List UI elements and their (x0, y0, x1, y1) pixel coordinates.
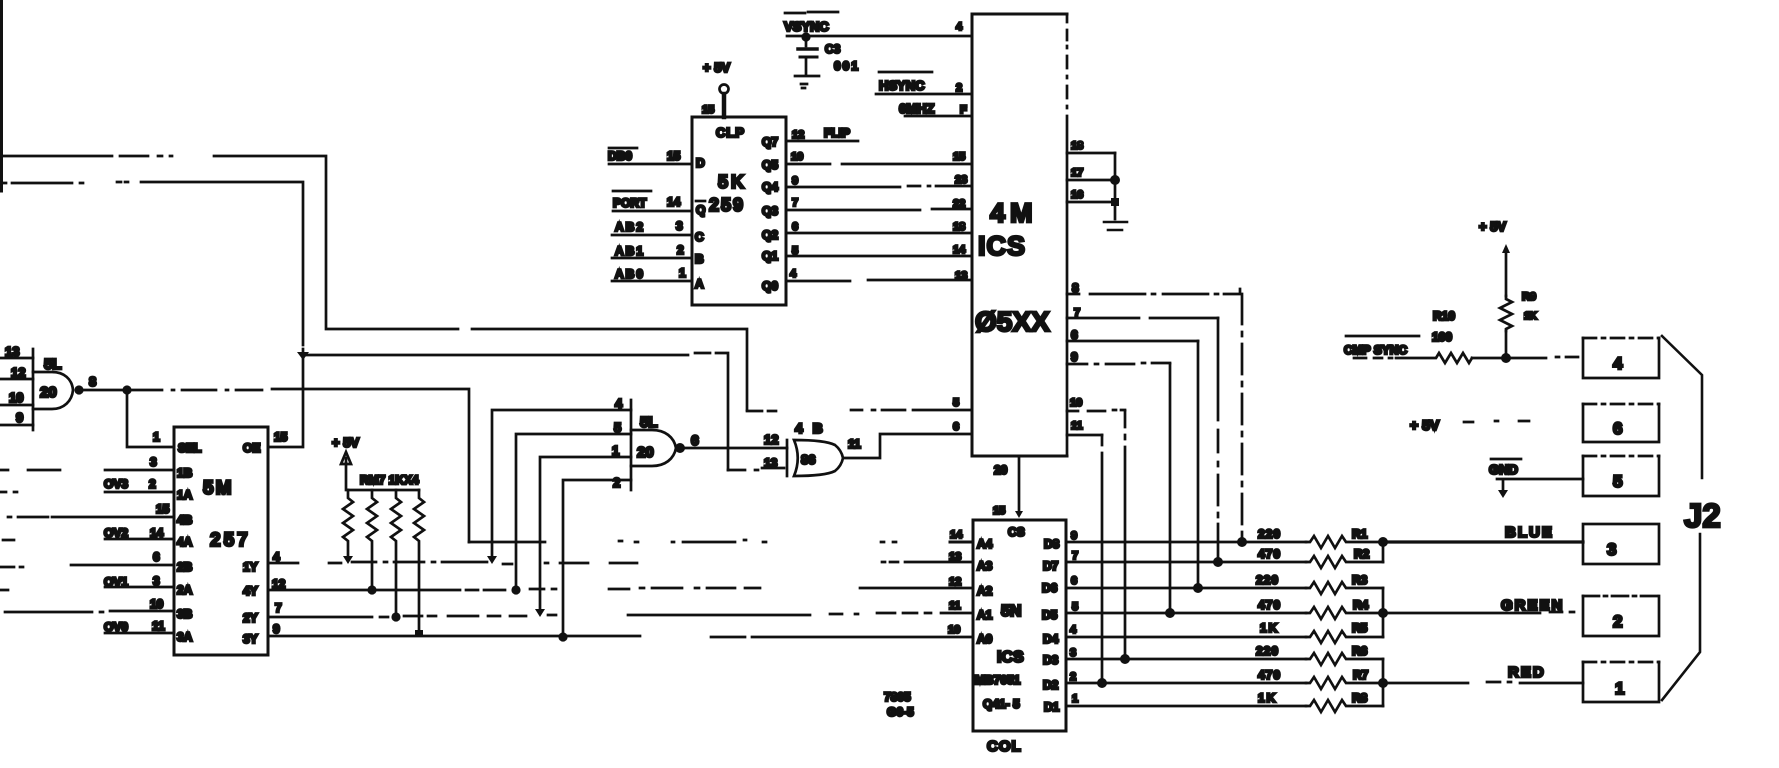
svg-text:15: 15 (156, 502, 170, 516)
wire junction bar R1-R2 (1382, 542, 1385, 562)
svg-text:RED: RED (1508, 664, 1546, 681)
svg-text:15: 15 (274, 430, 288, 444)
connector J2 pin 1 box (1583, 662, 1659, 702)
svg-text:AB2: AB2 (615, 220, 645, 234)
svg-text:2: 2 (1613, 612, 1622, 631)
svg-text:3A: 3A (177, 630, 193, 644)
capacitor C3 (795, 37, 819, 88)
svg-text:3: 3 (676, 219, 683, 233)
resistor R9 1K (1500, 296, 1512, 331)
svg-text:100: 100 (1432, 330, 1452, 344)
svg-text:1K: 1K (1258, 691, 1277, 705)
wire vertical drop to R2 row (1217, 318, 1220, 562)
svg-text:5: 5 (614, 420, 621, 435)
svg-text:9: 9 (1071, 350, 1078, 364)
prom 5N body (973, 520, 1066, 731)
wire D5 row to R4 (1066, 612, 1306, 615)
wire 2Y row (268, 613, 973, 617)
wire junction bar R6-R8 (1382, 659, 1385, 706)
svg-text:3B: 3B (177, 607, 193, 621)
svg-text:+ 5V: + 5V (1479, 219, 1506, 234)
5K G name (696, 200, 705, 203)
signal PORT (613, 190, 651, 193)
wire Q4 to 4M pin 23 (787, 186, 972, 187)
svg-text:2A: 2A (177, 583, 193, 597)
border frame left edge (0, 0, 3, 191)
svg-text:13: 13 (5, 344, 19, 359)
wire D1 row to R8 (1066, 705, 1306, 708)
svg-text:5L: 5L (640, 414, 658, 431)
svg-text:Q3: Q3 (762, 204, 778, 218)
svg-text:2: 2 (1070, 671, 1076, 683)
connector J2 pin 4 box (1583, 338, 1659, 378)
svg-text:6: 6 (691, 432, 699, 448)
junction arrow staircase-3 on 2Y (535, 609, 545, 617)
wire junction bar R3-R5 (1382, 588, 1385, 637)
svg-text:4M: 4M (990, 198, 1038, 228)
wire 1B from left edge (0, 469, 174, 472)
svg-text:4Y: 4Y (243, 584, 258, 598)
resistor R1 220 (1306, 536, 1383, 548)
junction dot D8 drop (1237, 537, 1247, 547)
svg-text:ICS: ICS (997, 649, 1024, 666)
junction dot RM7-2 on 4Y (367, 585, 376, 594)
wire D6 row to R3 (1066, 587, 1306, 590)
svg-text:8: 8 (89, 374, 96, 389)
svg-text:20: 20 (994, 463, 1008, 477)
junction dot D2 drop (1097, 678, 1107, 688)
wire AB1 to B (612, 257, 692, 260)
svg-text:R3: R3 (1352, 573, 1368, 587)
svg-text:+ 5V: + 5V (703, 60, 730, 75)
svg-text:13: 13 (955, 270, 967, 282)
wire OV1 stub (0, 587, 174, 590)
wire Q0 to 4M pin 13 (787, 280, 972, 281)
wire staircase 1Y to gate input 4 (492, 410, 631, 556)
svg-text:6MHZ: 6MHZ (899, 101, 934, 116)
svg-text:A0: A0 (977, 632, 993, 646)
svg-text:7805: 7805 (884, 690, 911, 704)
wire 6MHZ to 4M pin F (905, 115, 972, 118)
wire vertical drop to R6 row (1124, 411, 1127, 659)
svg-text:10: 10 (948, 624, 960, 636)
connector J2 pin 6 box (1583, 404, 1659, 442)
svg-text:13: 13 (764, 456, 778, 470)
svg-text:7: 7 (275, 601, 282, 615)
svg-text:2: 2 (613, 475, 620, 490)
svg-text:4: 4 (956, 21, 963, 33)
svg-text:CMP SYNC: CMP SYNC (1344, 343, 1407, 357)
svg-text:D7: D7 (1043, 559, 1059, 573)
junction dot D7 drop (1213, 557, 1223, 567)
signal BLUE wire (1383, 540, 1583, 543)
svg-text:9: 9 (1071, 530, 1077, 542)
svg-text:11: 11 (949, 600, 961, 612)
connector J2 pin 5 box (1583, 456, 1659, 496)
svg-text:Ø5XX: Ø5XX (975, 306, 1050, 337)
svg-text:470: 470 (1258, 547, 1281, 561)
wire D8 row to R1 (1066, 541, 1306, 544)
wire D4 row to R5 (1066, 636, 1306, 639)
junction arrow staircase-1 on 1Y (487, 556, 497, 564)
svg-text:B: B (695, 252, 704, 266)
svg-text:1: 1 (1615, 679, 1624, 698)
svg-text:7: 7 (792, 197, 798, 209)
svg-text:R9: R9 (1522, 291, 1536, 303)
svg-text:4: 4 (1613, 354, 1623, 373)
junction dot R9-R10 (1501, 353, 1511, 363)
svg-text:D8: D8 (1044, 537, 1060, 551)
svg-text:SEL: SEL (178, 441, 201, 455)
svg-text:11: 11 (848, 437, 861, 451)
junction dot D5 drop (1165, 608, 1175, 618)
svg-text:2Y: 2Y (243, 611, 258, 625)
connector J2 pin 2 box (1583, 596, 1659, 636)
svg-text:1B: 1B (177, 466, 193, 480)
svg-text:1: 1 (1072, 693, 1078, 705)
svg-text:001: 001 (834, 59, 860, 73)
svg-text:Q2: Q2 (762, 228, 778, 242)
resistor R2 470 (1306, 556, 1383, 568)
svg-text:1: 1 (153, 430, 160, 444)
svg-text:R1: R1 (1352, 527, 1368, 541)
junction RM7-4 on 3Y (415, 630, 423, 637)
junction dot D3 drop (1120, 654, 1130, 664)
svg-text:6: 6 (153, 550, 160, 564)
svg-text:R6: R6 (1352, 644, 1368, 658)
node 6 output of 5L second (675, 443, 685, 453)
svg-text:10: 10 (791, 151, 803, 163)
svg-text:14: 14 (950, 529, 963, 541)
svg-text:PORT: PORT (613, 196, 647, 210)
svg-text:J2: J2 (1684, 497, 1721, 534)
svg-text:11: 11 (1071, 420, 1083, 432)
junction dot D6 drop (1193, 583, 1203, 593)
svg-text:AB0: AB0 (615, 267, 645, 281)
wire 4Y row (268, 588, 973, 590)
ground symbol small (1502, 481, 1505, 490)
wire A4 stub (950, 541, 973, 544)
svg-text:HSYNC: HSYNC (879, 78, 925, 93)
signal CMPSYNC (1346, 335, 1419, 338)
junction dot staircase-4 on 3Y (558, 632, 567, 641)
svg-text:220: 220 (1258, 527, 1281, 541)
svg-text:GREEN: GREEN (1501, 597, 1564, 614)
wire R9 to CMPSYNC node (1505, 331, 1508, 358)
svg-text:23: 23 (955, 174, 967, 186)
junction dot staircase-2 on 4Y (511, 585, 520, 594)
svg-text:A2: A2 (977, 584, 993, 598)
svg-text:D: D (696, 156, 705, 170)
svg-text:5: 5 (953, 397, 959, 409)
wire pin 16 (1067, 201, 1115, 204)
svg-text:470: 470 (1258, 598, 1281, 612)
wire staircase 2Y to gate input 1 (540, 457, 631, 610)
or gate 4B input bracket (786, 440, 789, 476)
svg-text:D4: D4 (1043, 632, 1059, 646)
svg-text:D3: D3 (1043, 653, 1059, 667)
wire pin 6 to R3 column (1067, 340, 1198, 343)
wire SEL branch down (127, 390, 174, 447)
connector J2 bracket (1662, 336, 1702, 700)
wire vertical drop to R7 row (1101, 435, 1104, 683)
svg-text:1: 1 (679, 266, 686, 280)
wire pin 10 to R6 column (1067, 410, 1125, 411)
wire gnd bus vertical (1114, 153, 1117, 219)
svg-text:D1: D1 (1044, 700, 1060, 714)
svg-text:Q41- 5: Q41- 5 (983, 697, 1020, 711)
svg-text:9: 9 (792, 175, 798, 187)
svg-text:A: A (695, 277, 704, 291)
wire staircase 3Y to gate input 2 (563, 480, 631, 637)
svg-text:R5: R5 (1352, 621, 1368, 635)
svg-text:Q7: Q7 (762, 135, 778, 149)
wire GND to pin 5 (1497, 478, 1583, 481)
wire Q2 to 4M pin 18 (787, 232, 972, 235)
svg-text:+ 5V: + 5V (1410, 417, 1440, 433)
wire 5L out to 4B input 12 (680, 447, 787, 450)
svg-text:CLP: CLP (716, 125, 745, 140)
svg-text:Q: Q (696, 203, 705, 217)
wire OV2 stub (3, 539, 174, 540)
wire DB0 to D (609, 163, 692, 166)
svg-text:5: 5 (1072, 601, 1078, 613)
resistor R6 220 (1306, 653, 1383, 665)
svg-text:11: 11 (152, 619, 165, 633)
signal DB0 (609, 147, 637, 150)
svg-text:4: 4 (615, 396, 623, 411)
wire staircase 4Y to gate input 5 (516, 434, 631, 590)
svg-text:2: 2 (149, 477, 156, 491)
svg-text:20: 20 (637, 444, 654, 461)
connector J2 pin 3 box (1583, 524, 1659, 564)
svg-text:4A: 4A (177, 535, 193, 549)
svg-text:+ 5V: + 5V (332, 435, 359, 450)
svg-text:10: 10 (9, 390, 23, 405)
svg-text:6: 6 (792, 221, 798, 233)
junction dot pin17 (1110, 175, 1120, 185)
wire pin 18 (1067, 152, 1115, 155)
svg-text:VSYNC: VSYNC (784, 19, 829, 34)
junction arrow RM7-1 to 1Y (343, 556, 353, 564)
svg-text:12: 12 (949, 576, 961, 588)
svg-text:20: 20 (40, 384, 57, 401)
wire pin 11 to R7 column (1067, 434, 1102, 437)
mux 5M body (174, 427, 268, 655)
svg-text:R4: R4 (1353, 598, 1369, 612)
svg-text:5K: 5K (718, 172, 747, 192)
svg-text:2: 2 (677, 243, 684, 257)
wire vertical drop to R4 row (1169, 364, 1172, 613)
wire OV0 stub (105, 632, 174, 635)
svg-text:14: 14 (953, 244, 966, 256)
wire Q3 to 4M pin 22 (787, 209, 972, 210)
custom IC 4M body (972, 14, 1067, 456)
resistor R8 1K (1306, 700, 1383, 712)
resistor R7 470 (1306, 677, 1383, 689)
svg-text:18: 18 (953, 221, 965, 233)
svg-text:12: 12 (792, 129, 804, 141)
wire net B from left edge (0, 182, 784, 470)
wire 3B from left edge (5, 611, 174, 612)
svg-text:1K: 1K (1260, 621, 1279, 635)
svg-text:15: 15 (953, 151, 965, 163)
wire AB0 to A (612, 280, 692, 283)
svg-text:4 B: 4 B (795, 420, 826, 436)
svg-text:1A: 1A (177, 488, 193, 502)
svg-text:10: 10 (1070, 397, 1082, 409)
resistor RM7-4 (414, 490, 424, 634)
resistor RM7-1 (343, 490, 353, 555)
wire VSYNC to 4M pin 4 (787, 35, 972, 38)
signal RED wire (1383, 682, 1583, 683)
svg-text:15: 15 (667, 149, 681, 163)
latch 5K body (692, 117, 786, 305)
nand gate 5L (7420 pins 13,12,10,9 -> 8) (0, 349, 73, 430)
resistor R10 100 (1396, 353, 1472, 363)
nand gate 5L second half (pins 4,5,1,2 -> 6) (631, 400, 676, 490)
svg-text:CS: CS (1008, 525, 1025, 539)
wire CMPSYNC dashes (1354, 357, 1392, 360)
svg-text:Q5: Q5 (762, 158, 778, 172)
svg-text:4B: 4B (177, 513, 193, 527)
svg-text:14: 14 (667, 195, 681, 209)
svg-text:4: 4 (1070, 624, 1077, 636)
svg-text:9: 9 (273, 622, 280, 636)
wire PORT to G (613, 210, 692, 213)
svg-text:259: 259 (709, 195, 745, 215)
wire AB2 to C (612, 234, 692, 237)
svg-text:22: 22 (953, 198, 965, 210)
resistor R4 470 (1306, 607, 1383, 619)
svg-text:RM7 1KX4: RM7 1KX4 (360, 473, 419, 487)
svg-text:257: 257 (210, 530, 251, 551)
junction dot RM7-3 on 2Y (391, 612, 400, 621)
svg-text:10: 10 (150, 597, 164, 611)
svg-text:12: 12 (11, 365, 25, 380)
svg-text:DB0: DB0 (608, 149, 632, 163)
svg-text:D5: D5 (1042, 608, 1058, 622)
wire B net dash-dot to x470 (130, 389, 469, 542)
svg-text:5: 5 (1613, 472, 1622, 491)
wire net A from left edge (0, 156, 972, 411)
svg-text:D6: D6 (1042, 581, 1058, 595)
svg-text:470: 470 (1258, 668, 1281, 682)
svg-text:GND: GND (1489, 462, 1518, 477)
svg-text:OV3: OV3 (104, 477, 128, 491)
svg-text:A1: A1 (977, 608, 993, 622)
svg-text:16: 16 (1071, 189, 1083, 201)
svg-text:C3: C3 (825, 42, 841, 56)
or gate 4B body (794, 440, 843, 476)
resistor RM7-3 (391, 490, 401, 617)
svg-text:ICS: ICS (978, 231, 1026, 261)
svg-text:9: 9 (16, 410, 23, 425)
svg-text:5L: 5L (44, 356, 62, 373)
svg-text:220: 220 (1256, 573, 1279, 587)
junction dot pin16 (1111, 198, 1119, 206)
svg-text:COL: COL (987, 738, 1022, 755)
svg-text:AB1: AB1 (615, 244, 645, 258)
svg-text:D2: D2 (1043, 678, 1059, 692)
wire Q5 to 4M pin 15 (787, 163, 972, 166)
svg-text:86: 86 (801, 452, 815, 467)
RM7 top bus (348, 489, 419, 492)
wire 1Y row (268, 562, 973, 564)
svg-text:A4: A4 (977, 537, 993, 551)
resistor R3 220 (1306, 582, 1383, 594)
wire 5L output to SEL junction (79, 389, 124, 392)
svg-text:MB7051: MB7051 (975, 673, 1021, 687)
junction dot at SEL branch (122, 385, 131, 394)
wire Q1 to 4M pin 14 (787, 255, 972, 258)
svg-text:Q0: Q0 (762, 279, 778, 293)
wire OV3 stub (0, 491, 174, 494)
wire R10 to J2 pin 4 (1472, 357, 1578, 358)
junction dot VSYNC-C3 (801, 32, 810, 41)
wire Q7 FLIP (787, 140, 858, 143)
wire 2B from left edge (0, 565, 174, 567)
signal GREEN wire (1383, 612, 1574, 613)
svg-text:6: 6 (1071, 575, 1077, 587)
svg-text:F: F (960, 104, 967, 116)
svg-text:220: 220 (1256, 644, 1279, 658)
wire 4B output to 4M pin 6 (843, 434, 972, 458)
svg-text:2B: 2B (177, 560, 193, 574)
svg-text:R7: R7 (1353, 668, 1369, 682)
4M pin 20 bottom stub to 5N CS (1018, 456, 1021, 511)
signal GND (1491, 458, 1521, 461)
svg-text:6: 6 (953, 421, 959, 433)
wire pin 17 (1067, 179, 1115, 182)
svg-text:5N: 5N (1001, 603, 1021, 620)
svg-text:FLIP: FLIP (824, 126, 850, 140)
svg-text:15: 15 (993, 505, 1005, 517)
svg-text:17: 17 (1071, 167, 1083, 179)
wire vertical drop to R1 row (1241, 294, 1244, 542)
wire D7 row to R2 (1066, 561, 1306, 564)
svg-text:Q1: Q1 (762, 249, 778, 263)
wire pin 7 to R2 column (1067, 317, 1218, 320)
svg-text:BLUE: BLUE (1505, 524, 1554, 541)
svg-text:A3: A3 (977, 559, 993, 573)
signal HSYNC (879, 71, 932, 74)
ground symbol (1104, 222, 1127, 230)
svg-text:3Y: 3Y (243, 632, 258, 646)
svg-text:1: 1 (612, 443, 619, 458)
svg-text:13: 13 (949, 551, 961, 563)
resistor R5 1K (1306, 631, 1383, 643)
svg-text:OE: OE (243, 441, 260, 455)
svg-text:3: 3 (1070, 647, 1076, 659)
wire D2 row to R7 (1066, 682, 1306, 685)
svg-text:G6-5: G6-5 (887, 705, 914, 719)
svg-text:2: 2 (956, 82, 962, 94)
svg-text:R2: R2 (1354, 547, 1370, 561)
wire D3 row to R6 (1066, 658, 1306, 661)
svg-text:Q4: Q4 (762, 180, 778, 194)
resistor RM7-2 (367, 490, 377, 590)
svg-text:1K: 1K (1524, 311, 1538, 322)
svg-text:4: 4 (790, 268, 797, 280)
wire 4B from left edge (8, 516, 174, 519)
wire pin 8 to R1 column (1067, 289, 1240, 294)
svg-text:C: C (695, 230, 704, 244)
svg-text:18: 18 (1071, 140, 1083, 152)
junction node B/OE (297, 352, 309, 360)
signal VSYNC (785, 12, 838, 13)
wire 3Y row (268, 636, 973, 637)
